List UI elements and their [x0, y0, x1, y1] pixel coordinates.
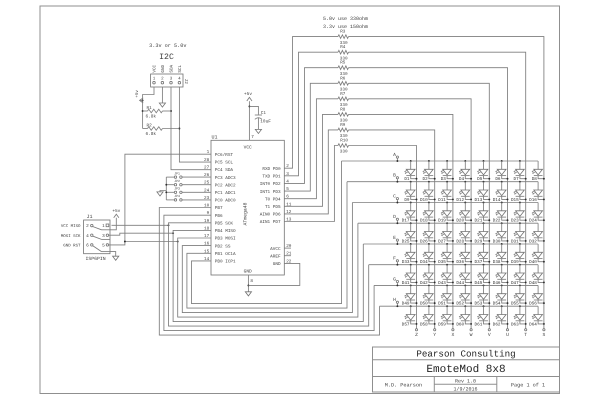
svg-text:6.8k: 6.8k — [146, 131, 157, 137]
svg-text:VCC: VCC — [153, 64, 158, 72]
svg-text:B: B — [393, 173, 396, 179]
svg-text:D20: D20 — [456, 219, 464, 224]
ground U1 — [245, 292, 251, 296]
LED D41 — [402, 264, 418, 286]
wire R7 to column W — [349, 99, 472, 329]
wire U1 PB4 to row E — [173, 230, 363, 321]
LED D3 — [441, 160, 454, 182]
svg-text:AREF: AREF — [270, 254, 281, 259]
wire RST J1 pin5 — [109, 242, 178, 245]
svg-text:AIN0 PD6: AIN0 PD6 — [260, 213, 281, 218]
svg-text:R9: R9 — [340, 123, 346, 128]
LED D27 — [438, 222, 454, 244]
note resistor values — [323, 16, 368, 30]
svg-text:PB5 SCK: PB5 SCK — [215, 222, 234, 227]
LED D23 — [511, 202, 527, 224]
ground C1 — [255, 129, 261, 133]
svg-text:D30: D30 — [493, 239, 501, 244]
svg-text:D11: D11 — [438, 198, 446, 203]
power +5v at U1 — [244, 92, 252, 101]
svg-text:D29: D29 — [475, 239, 483, 244]
LED D32 — [529, 223, 545, 244]
wire pin22 GND loop — [248, 263, 299, 285]
wire row D — [358, 222, 538, 224]
svg-text:D36: D36 — [456, 260, 464, 265]
svg-text:S: S — [542, 332, 545, 338]
svg-text:D33: D33 — [402, 260, 410, 265]
resistor R6 330 — [338, 76, 349, 92]
LED D28 — [456, 222, 472, 244]
svg-text:D40: D40 — [529, 260, 537, 265]
svg-text:3.3v or 5.0v: 3.3v or 5.0v — [149, 43, 186, 49]
wire row G — [374, 284, 538, 286]
svg-text:D14: D14 — [493, 198, 501, 203]
svg-text:EmoteMod 8x8: EmoteMod 8x8 — [426, 364, 505, 376]
svg-text:D12: D12 — [456, 198, 464, 203]
LED D21 — [475, 202, 491, 224]
svg-text:T0 PD4: T0 PD4 — [265, 197, 281, 202]
node MISO/PB5 — [168, 224, 170, 226]
svg-text:D63: D63 — [511, 322, 519, 327]
node Y flag — [433, 329, 436, 339]
svg-text:D19: D19 — [438, 219, 446, 224]
svg-text:TXD PD1: TXD PD1 — [262, 175, 281, 180]
LED D59 — [438, 305, 454, 327]
LED D49 — [402, 284, 418, 306]
svg-text:D: D — [393, 214, 396, 220]
svg-text:3.3v use 150ohm: 3.3v use 150ohm — [323, 24, 368, 30]
svg-text:D59: D59 — [438, 322, 446, 327]
wire U1 PD0 to R3 — [284, 37, 338, 169]
LED D29 — [475, 222, 491, 244]
svg-text:INT1 PD3: INT1 PD3 — [260, 190, 281, 195]
svg-text:D22: D22 — [493, 219, 501, 224]
svg-text:D23: D23 — [511, 219, 519, 224]
svg-text:D44: D44 — [456, 281, 464, 286]
svg-text:D3: D3 — [441, 177, 447, 182]
ground J1 — [113, 256, 119, 260]
svg-text:GND: GND — [161, 64, 166, 72]
node X flag — [451, 329, 454, 339]
svg-text:D34: D34 — [420, 260, 428, 265]
LED D62 — [493, 305, 509, 327]
svg-text:U: U — [506, 332, 509, 338]
resistor R10 330 — [338, 139, 349, 155]
svg-text:PB2 SS: PB2 SS — [215, 244, 231, 249]
LED D2 — [423, 160, 436, 182]
LED D33 — [402, 243, 418, 265]
svg-text:T: T — [524, 332, 527, 338]
LED D44 — [456, 264, 472, 286]
svg-text:PB1 OC1A: PB1 OC1A — [215, 252, 236, 257]
svg-text:330: 330 — [340, 150, 348, 155]
wire row A — [342, 160, 539, 162]
svg-text:D64: D64 — [529, 322, 537, 327]
svg-text:PB7: PB7 — [215, 206, 223, 211]
U1 left pin numbers — [204, 150, 210, 262]
LED D22 — [493, 202, 509, 224]
svg-text:D45: D45 — [475, 281, 483, 286]
IC U1 ATmega48 body — [211, 140, 284, 275]
connector J2 — [151, 64, 189, 87]
node W flag — [470, 329, 473, 339]
pin 21 AREF stub — [284, 255, 291, 257]
svg-text:D24: D24 — [529, 219, 537, 224]
LED D42 — [420, 264, 436, 286]
LED D5 — [477, 160, 490, 182]
LED D20 — [456, 202, 472, 224]
pin 8 GND stub — [248, 275, 253, 292]
svg-text:D15: D15 — [511, 198, 519, 203]
node VCC/C1 — [248, 105, 250, 107]
svg-text:D37: D37 — [475, 260, 483, 265]
svg-text:AIN1 PD7: AIN1 PD7 — [260, 220, 281, 225]
resistor R1 6.8k — [143, 106, 171, 119]
svg-text:D2: D2 — [423, 177, 429, 182]
wire U1 PB1 to row B — [187, 182, 347, 308]
wire U1 PD1 to R4 — [284, 52, 338, 176]
LED D25 — [402, 222, 418, 244]
svg-text:D55: D55 — [511, 302, 519, 307]
resistor R9 330 — [338, 123, 349, 139]
wire U1 PB5 to row F — [169, 223, 369, 326]
LED D55 — [511, 284, 527, 306]
svg-text:R8: R8 — [340, 107, 346, 112]
svg-text:SCL: SCL — [178, 64, 183, 72]
svg-text:D28: D28 — [456, 239, 464, 244]
LED D58 — [420, 305, 436, 327]
LED D56 — [529, 285, 545, 306]
svg-text:28: 28 — [204, 158, 210, 163]
svg-text:AVCC: AVCC — [270, 247, 281, 252]
LED D31 — [511, 222, 527, 244]
LED D16 — [529, 182, 545, 203]
svg-text:D4: D4 — [459, 177, 465, 182]
node Z flag — [415, 329, 418, 339]
wire U1 PB6 to row G — [164, 215, 374, 330]
power +5v at J1 — [112, 209, 120, 218]
svg-text:D25: D25 — [402, 239, 410, 244]
svg-text:Z: Z — [415, 332, 418, 338]
wire MISO J1 pin1 — [112, 224, 169, 226]
node G flag — [393, 276, 398, 286]
title block — [373, 347, 560, 392]
LED D48 — [529, 265, 545, 286]
svg-text:1/9/2016: 1/9/2016 — [453, 386, 477, 392]
svg-text:D48: D48 — [529, 281, 537, 286]
svg-text:T1 PD5: T1 PD5 — [265, 205, 281, 210]
jumper JP2 — [166, 179, 211, 186]
svg-text:ISP6PIN: ISP6PIN — [86, 256, 106, 262]
svg-text:R6: R6 — [340, 76, 346, 81]
jumper JP1 — [166, 171, 211, 178]
wire U1 PB0 to row A — [192, 161, 342, 304]
node rail 2 — [165, 191, 167, 193]
svg-text:D32: D32 — [529, 239, 537, 244]
wire U1 PD4 to R7 — [284, 99, 338, 199]
node +5v tap — [142, 99, 144, 101]
svg-text:D58: D58 — [420, 322, 428, 327]
svg-text:3: 3 — [102, 234, 105, 239]
resistor R3 330 — [338, 30, 349, 46]
LED D45 — [475, 264, 491, 286]
svg-text:27: 27 — [204, 165, 210, 170]
node C flag — [393, 194, 398, 204]
pin 20 AVCC stub — [284, 247, 291, 249]
wire U1 PB2 to row C — [182, 203, 352, 313]
svg-text:D5: D5 — [477, 177, 483, 182]
svg-text:PC4 SDA: PC4 SDA — [215, 168, 234, 173]
svg-text:D62: D62 — [493, 322, 501, 327]
svg-text:D38: D38 — [493, 260, 501, 265]
svg-text:PB6: PB6 — [215, 214, 223, 219]
wire R3 to column S — [349, 37, 544, 329]
node RST/PB3 — [177, 241, 179, 243]
svg-text:D43: D43 — [438, 281, 446, 286]
node SCK/PB4 — [172, 232, 174, 234]
svg-text:RXD PD0: RXD PD0 — [262, 167, 281, 172]
LED D38 — [493, 243, 509, 265]
resistor R4 330 — [338, 45, 349, 61]
LED D9 — [404, 181, 417, 203]
LED D46 — [493, 264, 509, 286]
svg-text:10uF: 10uF — [260, 120, 271, 125]
svg-text:J2: J2 — [183, 79, 188, 85]
wire R10 to column Z — [349, 146, 417, 329]
LED D43 — [438, 264, 454, 286]
wire row E — [363, 243, 538, 245]
LED D30 — [493, 222, 509, 244]
svg-text:PC0 ADC0: PC0 ADC0 — [215, 199, 236, 204]
svg-text:D51: D51 — [438, 302, 446, 307]
svg-text:G: G — [393, 276, 396, 282]
LED D14 — [493, 181, 509, 203]
node V flag — [488, 329, 491, 339]
svg-text:SDA: SDA — [170, 64, 175, 72]
svg-text:X: X — [451, 332, 454, 338]
LED D12 — [456, 181, 472, 203]
svg-text:D61: D61 — [475, 322, 483, 327]
svg-text:VCC MISO: VCC MISO — [61, 224, 81, 229]
svg-text:5: 5 — [102, 244, 105, 249]
svg-text:D56: D56 — [529, 302, 537, 307]
wire row C — [352, 202, 538, 204]
wire U1 PD7 to R10 — [284, 146, 338, 222]
resistor R7 330 — [338, 92, 349, 108]
svg-text:D26: D26 — [420, 239, 428, 244]
svg-text:D57: D57 — [402, 322, 410, 327]
svg-text:R3: R3 — [340, 30, 346, 35]
LED D1 — [404, 160, 417, 182]
svg-text:D47: D47 — [511, 281, 519, 286]
node R1 tap — [142, 110, 144, 112]
svg-text:D16: D16 — [529, 198, 537, 203]
wire RST to U1 pin1 — [125, 154, 211, 241]
node T flag — [524, 329, 527, 339]
svg-text:PB0 ICP1: PB0 ICP1 — [215, 260, 236, 265]
svg-text:R10: R10 — [340, 139, 348, 144]
LED D10 — [420, 181, 436, 203]
wire R6 to column V — [349, 83, 490, 328]
wire U1 PD3 to R6 — [284, 83, 338, 191]
LED D19 — [438, 202, 454, 224]
svg-text:ATmega48: ATmega48 — [243, 202, 249, 225]
LED D51 — [438, 284, 454, 306]
node U flag — [506, 329, 509, 339]
wire jumper ground rail — [165, 177, 167, 200]
resistor R5 330 — [338, 61, 349, 77]
svg-text:GND RST: GND RST — [63, 244, 81, 249]
wire +5v to J1 pin2 — [110, 218, 116, 230]
svg-text:8: 8 — [250, 279, 253, 284]
svg-text:PC6/RST: PC6/RST — [215, 152, 234, 158]
wire row H — [380, 305, 539, 307]
svg-text:PC1 ADC1: PC1 ADC1 — [215, 191, 236, 196]
wire R5 to column U — [349, 68, 508, 329]
node B flag — [393, 173, 398, 183]
svg-text:D53: D53 — [475, 302, 483, 307]
svg-text:D31: D31 — [511, 239, 519, 244]
LED D54 — [493, 284, 509, 306]
node S flag — [542, 329, 545, 339]
LED D17 — [402, 202, 418, 224]
LED D26 — [420, 222, 436, 244]
svg-text:D1: D1 — [404, 177, 410, 182]
svg-text:D21: D21 — [475, 219, 483, 224]
LED D34 — [420, 243, 436, 265]
node F flag — [393, 256, 398, 266]
svg-text:Pearson Consulting: Pearson Consulting — [416, 349, 515, 360]
LED D24 — [529, 203, 545, 224]
svg-text:PC3 ADC3: PC3 ADC3 — [215, 176, 236, 181]
jumper JP3 — [166, 187, 211, 194]
svg-text:PB4 MISO: PB4 MISO — [215, 229, 236, 234]
LED D4 — [459, 160, 472, 182]
svg-text:D6: D6 — [495, 177, 501, 182]
J1 left pin labels — [61, 224, 81, 248]
wire U1 PD6 to R9 — [284, 130, 338, 214]
svg-text:+5v: +5v — [112, 209, 120, 214]
svg-text:U1: U1 — [212, 135, 218, 141]
svg-text:1: 1 — [102, 224, 105, 229]
node SDA/R1 — [170, 110, 172, 112]
svg-text:INT0 PD2: INT0 PD2 — [260, 182, 281, 187]
U1 right pin numbers — [286, 164, 292, 264]
LED D11 — [438, 181, 454, 203]
LED D7 — [514, 160, 527, 182]
node RST join — [124, 241, 126, 243]
node rail 1 — [165, 184, 167, 186]
svg-text:V: V — [488, 332, 491, 338]
LED D52 — [456, 284, 472, 306]
ground I2C pin2 — [159, 87, 165, 107]
svg-text:D50: D50 — [420, 302, 428, 307]
svg-text:D46: D46 — [493, 281, 501, 286]
wire U1 PB7 to row H — [159, 208, 379, 336]
svg-text:E: E — [393, 235, 396, 241]
LED D13 — [475, 181, 491, 203]
LED D64 — [529, 306, 545, 327]
wire U1 PB3 to row D — [178, 223, 358, 317]
connector J1 ISP6PIN — [84, 214, 110, 262]
power +5v (rotated) — [135, 90, 143, 103]
svg-text:2: 2 — [86, 224, 89, 229]
wire row B — [347, 181, 538, 183]
LED D60 — [456, 305, 472, 327]
LED D37 — [475, 243, 491, 265]
svg-text:VCC: VCC — [244, 144, 252, 150]
svg-text:D8: D8 — [532, 177, 538, 182]
capacitor C1 10uF — [255, 111, 271, 129]
wire SCL: I2C pin4 to U1 pin28 — [179, 87, 211, 162]
LED D35 — [438, 243, 454, 265]
svg-text:JP2: JP2 — [174, 179, 180, 183]
LED D39 — [511, 243, 527, 265]
svg-text:I2C: I2C — [159, 53, 174, 62]
svg-text:A: A — [393, 152, 396, 158]
resistor R8 330 — [338, 107, 349, 123]
svg-text:PB3 MOSI: PB3 MOSI — [215, 237, 236, 242]
svg-text:D35: D35 — [438, 260, 446, 265]
LED D15 — [511, 181, 527, 203]
wire U1 PD5 to R8 — [284, 114, 338, 206]
svg-text:D60: D60 — [456, 322, 464, 327]
svg-text:Page 1 of 1: Page 1 of 1 — [511, 383, 545, 389]
LED D6 — [495, 160, 508, 182]
resistor R2 6.8k — [143, 124, 180, 137]
svg-text:GND: GND — [273, 262, 281, 267]
svg-text:D18: D18 — [420, 219, 428, 224]
svg-text:GND: GND — [244, 269, 252, 275]
svg-text:PC5 SCL: PC5 SCL — [215, 161, 234, 166]
LED D61 — [475, 305, 491, 327]
wire I2C pin1 to +5v rail — [143, 87, 154, 129]
node E flag — [393, 235, 398, 245]
wire SCK J1 pin3 — [109, 233, 173, 235]
svg-text:5.0v use 330ohm: 5.0v use 330ohm — [323, 16, 368, 22]
LED D63 — [511, 305, 527, 327]
ground jumper rail — [157, 191, 166, 197]
svg-text:6.8k: 6.8k — [146, 114, 157, 120]
jumper JP4 — [166, 194, 211, 201]
svg-text:D7: D7 — [514, 177, 520, 182]
svg-text:C: C — [393, 194, 396, 200]
LED D36 — [456, 243, 472, 265]
svg-text:W: W — [470, 332, 473, 338]
svg-text:D54: D54 — [493, 302, 501, 307]
svg-text:F: F — [393, 256, 396, 262]
LED D53 — [475, 284, 491, 306]
svg-text:D41: D41 — [402, 281, 410, 286]
svg-text:D10: D10 — [420, 198, 428, 203]
LED D47 — [511, 264, 527, 286]
svg-text:H: H — [393, 297, 396, 303]
LED D57 — [402, 305, 418, 327]
wire J1 pin6 to ground — [110, 252, 116, 257]
node A flag — [393, 152, 398, 162]
svg-text:JP3: JP3 — [174, 187, 180, 191]
LED D8 — [532, 161, 545, 182]
svg-text:+5v: +5v — [135, 90, 140, 98]
svg-text:PC2 ADC2: PC2 ADC2 — [215, 183, 236, 188]
node SCL/R2 — [178, 128, 180, 130]
svg-text:Y: Y — [433, 332, 436, 338]
wire to C1 — [249, 106, 258, 114]
node H flag — [393, 297, 398, 307]
wire R8 to column X — [349, 114, 453, 328]
wire U1 PD2 to R5 — [284, 68, 338, 184]
wire row F — [369, 264, 538, 266]
